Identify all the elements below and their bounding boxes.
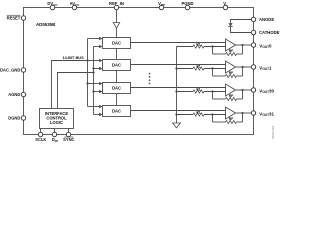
pin SCLK xyxy=(38,132,42,136)
svg-text:14-BIT BUS: 14-BIT BUS xyxy=(63,55,85,60)
junction feedback/input node (VOUT30) xyxy=(211,90,213,92)
wire ground rail to R1 (VOUT1 channel) xyxy=(177,68,194,70)
pin REF_IN xyxy=(114,5,118,9)
wire RF to output node (VOUT31) xyxy=(237,121,243,123)
wire ground rail to R1 (VOUT31 channel) xyxy=(177,114,194,116)
wire feedback down (VOUT31) xyxy=(242,113,244,122)
svg-text:RF: RF xyxy=(229,49,234,53)
wire analog ground rail xyxy=(176,47,178,124)
wire DAC2 to DAC3 ref chain xyxy=(116,71,118,83)
svg-text:DAC: DAC xyxy=(112,41,121,46)
wire interface to SYNC xyxy=(68,129,70,133)
wire feedback left segment (VOUT30) xyxy=(213,98,226,100)
svg-text:04623-001: 04623-001 xyxy=(271,125,275,139)
pin CATHODE xyxy=(251,30,255,34)
wire feedback down (VOUT0) xyxy=(242,45,244,54)
wire REF_IN to buffer xyxy=(116,10,118,23)
wire feedback left segment (VOUT0) xyxy=(213,53,226,55)
wire interface to SCLK xyxy=(40,129,42,133)
pin RESET (active low) xyxy=(21,16,25,20)
wire interface to DIN xyxy=(54,129,56,133)
wire DAC4 output to amp VOUT31 xyxy=(131,110,226,112)
wire bus branch upper DAC3 xyxy=(88,83,100,85)
arrowhead into DAC3 upper xyxy=(99,82,102,85)
svg-text:VOUT31: VOUT31 xyxy=(259,111,274,117)
wire R1 to amp inverting input (VOUT1) xyxy=(204,68,226,70)
resistor R1 (VOUT30 channel) xyxy=(193,90,204,93)
wire DAC1 to DAC2 ref chain xyxy=(116,49,118,60)
svg-text:R1: R1 xyxy=(196,87,200,91)
junction trunk B DAC3 branch xyxy=(92,90,94,92)
DAC block 2 xyxy=(103,60,131,71)
svg-text:AD5535B: AD5535B xyxy=(36,22,55,27)
pin VOUT0 xyxy=(251,43,255,47)
DAC block 3 xyxy=(103,83,131,94)
svg-text:RF: RF xyxy=(229,71,234,75)
resistor R1 (VOUT1 channel) xyxy=(193,67,204,70)
junction feedback tap at output (VOUT31) xyxy=(241,112,243,114)
junction trunk B DAC2 branch xyxy=(92,67,94,69)
junction ground rail row 4 xyxy=(175,113,177,115)
wire amp output to pin VOUT31 xyxy=(236,112,252,114)
DAC block 1 xyxy=(103,38,131,49)
resistor R1 (VOUT31 channel) xyxy=(193,113,204,116)
svg-text:DGND: DGND xyxy=(8,116,20,121)
ellipsis dots (channels 2..29 omitted) xyxy=(149,73,151,75)
pin DIN xyxy=(52,132,56,136)
pin DGND xyxy=(21,116,25,120)
wire feedback up to input (VOUT30) xyxy=(212,92,214,100)
op-amp output amplifier VOUT1 xyxy=(226,61,236,73)
svg-text:VPP: VPP xyxy=(158,1,165,7)
pin ANODE xyxy=(251,17,255,21)
wire ground rail to R1 (VOUT0 channel) xyxy=(177,46,194,48)
junction feedback/input node (VOUT1) xyxy=(211,67,213,69)
pin VOUT1 xyxy=(251,65,255,69)
svg-text:REF_IN: REF_IN xyxy=(109,1,124,6)
resistor R1 (VOUT0 channel) xyxy=(193,45,204,48)
junction feedback tap at output (VOUT1) xyxy=(241,66,243,68)
block interface control logic xyxy=(40,109,74,129)
arrowhead into DAC2 lower xyxy=(99,67,102,70)
pin DAC_GND xyxy=(21,68,25,72)
wire amp output to pin VOUT1 xyxy=(236,66,252,68)
pin SYNC (active low) xyxy=(66,132,70,136)
svg-text:SYNC: SYNC xyxy=(63,137,74,142)
svg-text:DIN: DIN xyxy=(52,137,58,143)
svg-text:ANODE: ANODE xyxy=(259,17,274,22)
svg-text:DVCC: DVCC xyxy=(47,1,58,7)
diode D1 (thermal monitor) xyxy=(228,23,232,26)
svg-text:VOUT30: VOUT30 xyxy=(259,88,274,94)
wire R1 to amp inverting input (VOUT0) xyxy=(204,46,226,48)
wire ANODE to diode xyxy=(231,20,252,24)
pin PGND xyxy=(185,5,189,9)
wire interface to trunk A xyxy=(52,61,88,109)
wire feedback left segment (VOUT1) xyxy=(213,75,226,77)
wire DAC3 to DAC4 ref chain xyxy=(116,94,118,106)
op-amp reference buffer xyxy=(113,23,119,29)
arrowhead into DAC4 lower xyxy=(99,113,102,116)
wire RF to output node (VOUT30) xyxy=(237,98,243,100)
pin AVCC xyxy=(72,5,76,9)
wire feedback up to input (VOUT31) xyxy=(212,115,214,123)
wire RF to output node (VOUT1) xyxy=(237,75,243,77)
DAC block 4 xyxy=(103,106,131,117)
svg-text:RF: RF xyxy=(229,117,234,121)
svg-text:DAC: DAC xyxy=(112,63,121,68)
wire feedback down (VOUT30) xyxy=(242,90,244,99)
arrowhead into DAC2 upper xyxy=(99,59,102,62)
wire feedback down (VOUT1) xyxy=(242,67,244,76)
pin AGND xyxy=(21,92,25,96)
wire DAC2 output to amp VOUT1 xyxy=(131,64,226,66)
pin VPP xyxy=(159,5,163,9)
wire feedback up to input (VOUT0) xyxy=(212,47,214,55)
wire 14-bit bus trunk B (lower) xyxy=(93,47,95,115)
junction feedback/input node (VOUT0) xyxy=(211,45,213,47)
wire amp output to pin VOUT30 xyxy=(236,89,252,91)
junction feedback tap at output (VOUT30) xyxy=(241,89,243,91)
svg-text:AGND: AGND xyxy=(8,92,20,97)
svg-text:PGND: PGND xyxy=(181,1,193,6)
svg-text:RESET: RESET xyxy=(7,16,21,21)
svg-text:DAC_GND: DAC_GND xyxy=(0,68,20,73)
svg-text:DAC: DAC xyxy=(112,86,121,91)
svg-text:CATHODE: CATHODE xyxy=(259,30,280,35)
arrowhead into DAC3 lower xyxy=(99,90,102,93)
wire buffer to DAC chain xyxy=(116,28,118,37)
wire feedback up to input (VOUT1) xyxy=(212,69,214,77)
wire amp output to pin VOUT0 xyxy=(236,44,252,46)
svg-text:DAC: DAC xyxy=(112,109,121,114)
junction ground rail row 3 xyxy=(175,90,177,92)
wire ground rail to R1 (VOUT30 channel) xyxy=(177,91,194,93)
junction feedback/input node (VOUT31) xyxy=(211,113,213,115)
wire RF to output node (VOUT0) xyxy=(237,53,243,55)
junction trunk A / DAC2 branch / interface feed xyxy=(86,59,88,61)
wire DAC3 output to amp VOUT30 xyxy=(131,87,226,89)
svg-text:VOUT1: VOUT1 xyxy=(259,65,272,71)
wire bus branch lower DAC4 xyxy=(94,114,100,116)
pin VOUT30 xyxy=(251,88,255,92)
svg-text:R1: R1 xyxy=(196,110,200,114)
wire R1 to amp inverting input (VOUT31) xyxy=(204,114,226,116)
ground symbol (open triangle) xyxy=(173,123,181,128)
pin DVCC xyxy=(50,5,54,9)
svg-text:R1: R1 xyxy=(196,64,200,68)
op-amp output amplifier VOUT31 xyxy=(226,107,236,119)
svg-text:VOUT0: VOUT0 xyxy=(259,43,272,49)
svg-text:LOGIC: LOGIC xyxy=(50,120,63,125)
arrowhead into DAC4 upper xyxy=(99,105,102,108)
resistor RF (VOUT30 channel) xyxy=(226,97,237,100)
junction trunk A DAC3 branch xyxy=(86,82,88,84)
resistor RF (VOUT1 channel) xyxy=(226,74,237,77)
op-amp output amplifier VOUT30 xyxy=(226,84,236,96)
svg-text:RF: RF xyxy=(229,94,234,98)
junction feedback tap at output (VOUT0) xyxy=(241,44,243,46)
junction ground rail row 2 xyxy=(175,67,177,69)
wire interface to trunk B xyxy=(58,73,94,109)
wire diode to CATHODE xyxy=(231,27,252,33)
resistor RF (VOUT31 channel) xyxy=(226,120,237,123)
resistor RF (VOUT0 channel) xyxy=(226,52,237,55)
pin V+ xyxy=(223,5,227,9)
op-amp output amplifier VOUT0 xyxy=(226,39,236,51)
wire bus branch upper DAC2 xyxy=(88,60,100,62)
chip boundary AD5535B package outline xyxy=(24,8,254,135)
arrowhead into DAC1 lower xyxy=(99,45,102,48)
svg-text:V+: V+ xyxy=(223,1,228,7)
wire feedback left segment (VOUT31) xyxy=(213,121,226,123)
wire bus branch upper DAC4 xyxy=(88,106,100,108)
svg-text:R1: R1 xyxy=(196,42,200,46)
wire bus branch lower DAC2 xyxy=(94,68,100,70)
pin VOUT31 xyxy=(251,111,255,115)
wire bus branch upper DAC1 xyxy=(88,38,100,40)
wire bus branch lower DAC3 xyxy=(94,91,100,93)
wire R1 to amp inverting input (VOUT30) xyxy=(204,91,226,93)
wire bus branch lower DAC1 xyxy=(94,46,100,48)
svg-text:SCLK: SCLK xyxy=(35,137,46,142)
arrowhead into DAC1 upper xyxy=(99,37,102,40)
wire 14-bit bus trunk A (upper) xyxy=(87,39,89,107)
wire DAC1 output to amp VOUT0 xyxy=(131,42,226,44)
svg-text:AVCC: AVCC xyxy=(70,1,81,7)
junction trunk B interface feed xyxy=(92,71,94,73)
